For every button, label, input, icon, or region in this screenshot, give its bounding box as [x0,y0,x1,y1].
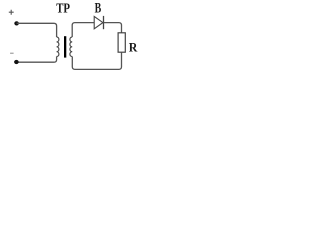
transformer TP primary winding [57,37,59,57]
terminal node top-left [14,21,19,25]
wire top-left to primary [17,23,57,37]
label - (negative input terminal) [10,53,14,54]
wire primary bottom to bottom terminal [16,57,56,63]
diode B cathode bar [103,16,105,29]
label + (positive input terminal) [9,10,14,15]
svg-text:TP: TP [56,2,70,17]
transformer core [64,36,66,57]
resistor R body [118,33,125,52]
diode B triangle [94,16,103,28]
svg-text:B: B [95,1,102,17]
wire diode cathode to resistor top [104,23,122,33]
wire resistor bottom to secondary bottom [72,52,121,69]
transformer TP secondary winding [70,37,72,57]
svg-text:R: R [129,41,138,55]
terminal node bottom-left [14,60,19,64]
wire secondary top to diode anode [72,23,94,37]
